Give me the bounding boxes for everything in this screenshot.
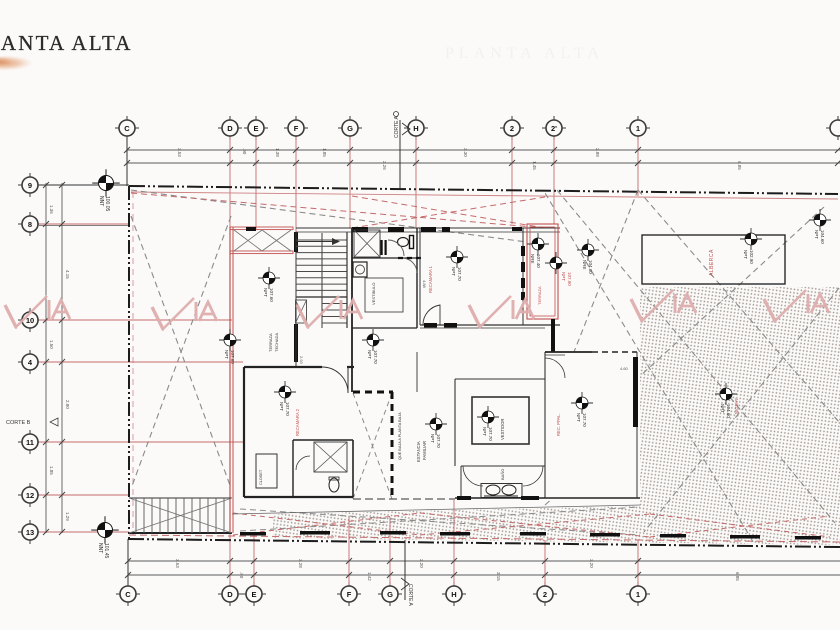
bottom strip wall dashes bbox=[240, 531, 821, 540]
svg-text:.90: .90 bbox=[239, 572, 244, 579]
svg-text:1.38: 1.38 bbox=[275, 148, 280, 157]
tick slashes bottom dims bbox=[125, 558, 641, 578]
stair1 treads bbox=[296, 240, 347, 323]
recamara2 door arc from terraza bbox=[322, 367, 348, 393]
svg-text:1.50: 1.50 bbox=[49, 340, 54, 349]
stair1 center rail bbox=[321, 233, 323, 328]
stair1 duct X box bbox=[296, 300, 307, 323]
svg-text:NNT: NNT bbox=[97, 543, 103, 553]
NPT 107.70 recamara1 bbox=[446, 246, 468, 268]
recamara ppal walls bbox=[545, 351, 592, 353]
svg-text:TECHADA: TECHADA bbox=[274, 333, 279, 352]
recamara2 top wall right stub bbox=[347, 366, 354, 368]
room labels bbox=[268, 265, 629, 480]
dim numbers top bbox=[177, 148, 742, 170]
svg-text:2: 2 bbox=[543, 590, 547, 599]
wc bath2 bbox=[329, 478, 339, 492]
svg-text:CORTE A: CORTE A bbox=[407, 584, 413, 607]
recamara ppal door arc bbox=[545, 358, 565, 378]
dashed diagonals bbox=[131, 190, 839, 545]
wall below balcony bbox=[551, 319, 555, 352]
svg-text:BAÑO: BAÑO bbox=[500, 469, 505, 480]
svg-text:4.88: 4.88 bbox=[422, 280, 427, 289]
grid bubbles left bbox=[18, 173, 42, 197]
left region X gray bbox=[131, 216, 231, 488]
bottom red offset dashed bbox=[129, 535, 840, 542]
bano vanity rect bbox=[481, 484, 522, 498]
NPT 107.70 hall bbox=[362, 329, 384, 351]
bath1 walls bbox=[351, 228, 353, 392]
svg-text:3.30: 3.30 bbox=[463, 148, 468, 157]
long shallow gray from corner bbox=[131, 190, 527, 242]
NPT 104.60 garden bbox=[715, 383, 737, 405]
tick slashes top dims bbox=[124, 147, 840, 166]
vestidor inner rect bbox=[472, 397, 529, 444]
bubble letters top bbox=[124, 124, 640, 133]
svg-text:1.45: 1.45 bbox=[532, 161, 537, 170]
svg-text:RECAMARA 2: RECAMARA 2 bbox=[295, 408, 300, 436]
svg-text:107.70: 107.70 bbox=[488, 427, 493, 441]
recamara1 door bbox=[423, 305, 440, 325]
svg-text:NPT: NPT bbox=[720, 404, 725, 413]
svg-text:1.85: 1.85 bbox=[322, 148, 327, 157]
svg-text:101.45: 101.45 bbox=[103, 543, 109, 559]
stair1 arrow bbox=[297, 241, 338, 243]
svg-text:NPT: NPT bbox=[224, 350, 229, 359]
svg-text:2: 2 bbox=[510, 124, 514, 133]
NRE 104.60 bbox=[577, 239, 599, 261]
NPT 107.60 terraza upper bbox=[258, 267, 280, 289]
NPT 107.70 rec ppal bbox=[571, 392, 593, 414]
svg-text:C: C bbox=[124, 124, 130, 133]
svg-text:3.53: 3.53 bbox=[177, 148, 182, 157]
svg-text:NPT: NPT bbox=[367, 350, 372, 359]
svg-text:VESTIDOR: VESTIDOR bbox=[500, 419, 505, 440]
terraza red wall vertical bbox=[229, 227, 231, 533]
stair2 bottom left bbox=[129, 497, 232, 499]
left red offset dashed bbox=[132, 192, 134, 535]
lower building block bbox=[129, 352, 821, 540]
black line gridline 9 bbox=[39, 184, 129, 186]
NPT 107.90 balcony2 bbox=[545, 252, 567, 274]
grid bottom row bbox=[116, 500, 840, 607]
svg-text:.90: .90 bbox=[242, 148, 247, 155]
svg-text:NRE: NRE bbox=[530, 254, 535, 264]
vertical dim lines left bbox=[45, 183, 47, 533]
NPT 107.60 terraza lower bbox=[219, 329, 241, 351]
svg-text:2.93: 2.93 bbox=[299, 356, 304, 365]
estancia bottom dashes bbox=[353, 498, 455, 500]
recamara1 door sill dashes bbox=[424, 323, 437, 328]
svg-text:1.42: 1.42 bbox=[367, 572, 372, 581]
svg-text:6.85: 6.85 bbox=[737, 161, 742, 170]
svg-text:CORTE A: CORTE A bbox=[394, 115, 400, 138]
recamara2 outer walls bbox=[244, 366, 322, 368]
svg-text:H: H bbox=[451, 590, 456, 599]
svg-text:NPT: NPT bbox=[430, 434, 435, 443]
pool alberca bbox=[642, 235, 785, 284]
CORTE A marker bottom bbox=[404, 540, 406, 600]
CORTE A marker top bbox=[394, 112, 411, 189]
svg-text:ALBERCA: ALBERCA bbox=[709, 249, 715, 276]
svg-text:TERRAZA: TERRAZA bbox=[537, 286, 542, 305]
svg-text:G: G bbox=[347, 124, 353, 133]
svg-text:3.53: 3.53 bbox=[175, 559, 180, 568]
svg-text:9: 9 bbox=[28, 181, 32, 190]
bano door arcs bbox=[463, 466, 483, 486]
bano walls bbox=[461, 465, 545, 467]
svg-text:2.80: 2.80 bbox=[65, 400, 70, 409]
svg-text:12: 12 bbox=[26, 491, 34, 500]
NRE 107.40 balcony bbox=[527, 233, 549, 255]
svg-text:NNT: NNT bbox=[98, 196, 104, 206]
corridor walls x=417..420 lower bbox=[416, 352, 418, 392]
svg-text:F: F bbox=[347, 590, 352, 599]
upper building block bbox=[230, 224, 560, 533]
svg-text:107.60: 107.60 bbox=[230, 350, 235, 364]
top red offset dashed bbox=[131, 192, 838, 199]
recamara1 window wall dashes right bbox=[521, 246, 525, 256]
bath1 dashed sill bbox=[398, 257, 425, 259]
svg-text:PLANTA ALTA: PLANTA ALTA bbox=[0, 31, 133, 55]
svg-text:107.70: 107.70 bbox=[285, 402, 290, 416]
black drop line gridline A bbox=[126, 137, 128, 186]
svg-text:104.60: 104.60 bbox=[588, 260, 593, 274]
red dashed X in bottom strip bbox=[233, 513, 420, 535]
svg-text:107.90: 107.90 bbox=[567, 272, 572, 286]
grid left column bbox=[6, 173, 243, 544]
svg-text:D: D bbox=[227, 590, 233, 599]
terraza red wall top bbox=[230, 227, 293, 230]
bottom property line bbox=[128, 539, 840, 547]
bottom strip top edge bbox=[232, 505, 640, 514]
dim numbers bottom bbox=[175, 559, 740, 581]
svg-text:1: 1 bbox=[636, 590, 640, 599]
red corner to building bbox=[131, 193, 545, 228]
red drop lines from top bubbles bbox=[230, 137, 638, 233]
VIA watermarks bbox=[5, 290, 829, 329]
NPT 107.70 vestidor bbox=[477, 406, 499, 428]
svg-text:1.36: 1.36 bbox=[49, 205, 54, 214]
svg-text:8: 8 bbox=[28, 220, 32, 229]
logo blob orange bbox=[0, 55, 34, 71]
red lines from left bubbles bbox=[39, 224, 243, 532]
svg-text:TERRAZA: TERRAZA bbox=[268, 333, 273, 352]
terraza red wall second bbox=[230, 251, 293, 254]
svg-text:PLANTA ALTA: PLANTA ALTA bbox=[445, 45, 604, 62]
svg-text:NPT: NPT bbox=[814, 230, 819, 239]
dim line 2 top bbox=[127, 162, 840, 164]
svg-text:1: 1 bbox=[636, 124, 640, 133]
svg-text:CORTE B: CORTE B bbox=[6, 420, 31, 426]
gray shallow X in bottom strip bbox=[240, 507, 640, 531]
svg-text:107.70: 107.70 bbox=[436, 434, 441, 448]
svg-text:D: D bbox=[227, 124, 233, 133]
svg-text:CLOSET: CLOSET bbox=[259, 469, 263, 485]
dim line 1 top bbox=[127, 149, 840, 151]
dim numbers left bbox=[49, 205, 70, 521]
svg-text:107.70: 107.70 bbox=[373, 350, 378, 364]
svg-text:102.90: 102.90 bbox=[749, 250, 754, 264]
svg-text:E: E bbox=[251, 590, 256, 599]
left property line bbox=[128, 186, 130, 539]
NPT 104.60 top right bbox=[809, 209, 831, 231]
svg-text:FAMILIAR: FAMILIAR bbox=[422, 441, 427, 460]
bottom wall lower block bbox=[455, 497, 640, 499]
svg-text:2.26: 2.26 bbox=[382, 161, 387, 170]
svg-text:1.85: 1.85 bbox=[49, 466, 54, 475]
heavy dashed void walls bbox=[353, 392, 393, 500]
NNT 101.45 bottom left bbox=[91, 516, 119, 544]
top property line bbox=[129, 186, 838, 194]
narrow X over void middle bbox=[353, 393, 392, 499]
svg-text:NPT: NPT bbox=[743, 250, 748, 259]
stair1 left wall bbox=[294, 232, 298, 252]
svg-text:100.05: 100.05 bbox=[104, 196, 110, 212]
svg-text:NPT: NPT bbox=[279, 402, 284, 411]
svg-text:11: 11 bbox=[26, 438, 34, 447]
svg-text:F: F bbox=[294, 124, 299, 133]
red X top strip bbox=[352, 196, 545, 228]
svg-text:107.60: 107.60 bbox=[269, 288, 274, 302]
vestibulo inner rect bbox=[365, 278, 403, 312]
shower X bath1 bbox=[354, 230, 380, 257]
svg-text:NPT: NPT bbox=[576, 413, 581, 422]
svg-text:ESTANCIA: ESTANCIA bbox=[416, 441, 421, 462]
svg-text:107.70: 107.70 bbox=[457, 267, 462, 281]
svg-text:JARDIN: JARDIN bbox=[734, 398, 739, 414]
vestidor room outer bbox=[455, 378, 545, 380]
thin line gridline 8 bbox=[39, 225, 129, 227]
svg-text:2.20: 2.20 bbox=[419, 559, 424, 568]
svg-text:4.60: 4.60 bbox=[620, 366, 629, 371]
balcony red rect bbox=[527, 224, 558, 319]
shower X bath2 bbox=[314, 442, 347, 472]
red risers from bottom bubbles bbox=[230, 500, 638, 585]
stair1 right wall bbox=[346, 232, 348, 328]
svg-text:RECAMARA 1: RECAMARA 1 bbox=[428, 265, 433, 293]
svg-text:NPT: NPT bbox=[561, 272, 566, 281]
louver X cells terraza bbox=[234, 230, 291, 251]
stipple region diagonals gray (clipped to terrain) bbox=[540, 190, 839, 545]
level marker stars bbox=[91, 169, 831, 558]
bano sinks bbox=[486, 485, 500, 495]
NPT 102.90 pool bbox=[740, 228, 762, 250]
svg-text:3.15: 3.15 bbox=[496, 572, 501, 581]
tick slashes left dims bbox=[43, 182, 65, 535]
svg-text:104.60: 104.60 bbox=[726, 404, 731, 418]
NPT 107.70 recamara2 bbox=[274, 381, 296, 403]
building top wall with window blocks bbox=[296, 227, 560, 229]
bath1 door arc bbox=[388, 240, 404, 256]
svg-text:NRE: NRE bbox=[582, 260, 587, 270]
bath2 door arc bbox=[296, 456, 310, 470]
svg-text:3.28: 3.28 bbox=[298, 559, 303, 568]
NPT 107.70 estancia bbox=[425, 413, 447, 435]
svg-text:104.60: 104.60 bbox=[820, 230, 825, 244]
grid bubbles top bbox=[115, 116, 840, 140]
recamara1 walls bbox=[419, 228, 421, 325]
svg-text:3.20: 3.20 bbox=[589, 559, 594, 568]
svg-text:NPT: NPT bbox=[482, 427, 487, 436]
closet recamara2 bbox=[256, 454, 277, 488]
svg-text:NPT: NPT bbox=[451, 267, 456, 276]
svg-text:107.40: 107.40 bbox=[536, 254, 541, 268]
NNT 100.05 bbox=[92, 169, 120, 197]
grid top row bbox=[115, 112, 840, 234]
dashes top near balcony bbox=[512, 227, 522, 231]
stair2 X bbox=[129, 498, 232, 533]
svg-text:2.88: 2.88 bbox=[595, 148, 600, 157]
stipple terrain right bbox=[273, 287, 840, 545]
svg-text:13: 13 bbox=[26, 528, 34, 537]
svg-text:4.15: 4.15 bbox=[65, 270, 70, 279]
small lav bath1 bbox=[353, 262, 367, 277]
svg-text:6.85: 6.85 bbox=[735, 572, 740, 581]
property boundary bbox=[128, 186, 840, 547]
svg-text:QUE BAJA A PLANTA BAJA: QUE BAJA A PLANTA BAJA bbox=[398, 412, 402, 460]
svg-text:2': 2' bbox=[551, 124, 557, 133]
svg-text:NPT: NPT bbox=[263, 288, 268, 297]
svg-text:E: E bbox=[253, 124, 258, 133]
hall walls under stairs bbox=[352, 327, 417, 329]
svg-text:H: H bbox=[413, 124, 418, 133]
svg-text:G: G bbox=[387, 590, 393, 599]
svg-text:107.70: 107.70 bbox=[582, 413, 587, 427]
svg-text:REC. PPAL.: REC. PPAL. bbox=[556, 413, 561, 436]
svg-text:C: C bbox=[125, 590, 131, 599]
svg-text:1.29: 1.29 bbox=[65, 512, 70, 521]
svg-text:VESTIBULO: VESTIBULO bbox=[371, 283, 376, 305]
bath2 partition bbox=[293, 439, 353, 441]
wc bath1 bbox=[398, 238, 409, 247]
